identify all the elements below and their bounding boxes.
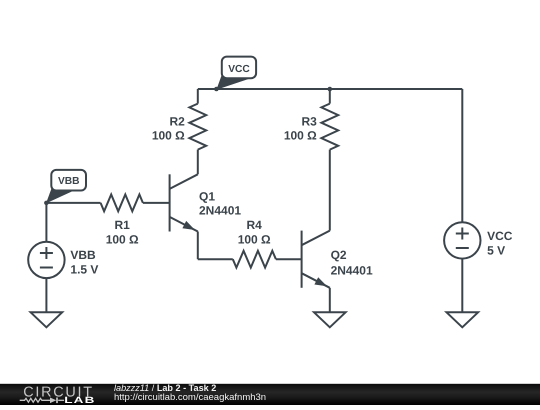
net flag VCC [216,57,256,90]
ground VCC [447,312,479,327]
svg-text:100 Ω: 100 Ω [284,128,317,142]
wire R1 to Q1 base [143,202,170,204]
transistor Q1 [170,174,198,231]
wire emitter to R4 [198,258,233,260]
svg-text:VCC: VCC [228,64,250,75]
svg-text:2N4401: 2N4401 [331,264,373,278]
svg-text:2N4401: 2N4401 [199,204,241,218]
svg-text:VCC: VCC [487,229,513,243]
footer caption [114,384,216,393]
svg-text:VBB: VBB [70,248,96,262]
wire Q1 emitter down [197,232,199,260]
logo resistor squiggle [20,398,64,402]
ground Q2 emitter [314,312,346,327]
node VBB junction [44,201,49,206]
resistor R3 [321,104,338,150]
svg-text:Q2: Q2 [331,248,347,262]
ground VBB [31,312,63,327]
node R3 rail junction [328,87,333,92]
logo diode [50,397,56,403]
wire Q2 collector up to R3 [329,150,331,231]
svg-text:100 Ω: 100 Ω [238,233,271,247]
wire R3 top lead [329,89,331,104]
svg-text:Q1: Q1 [199,189,215,203]
wire R4 to Q2 base [276,258,302,260]
wire R2 top lead [197,89,199,104]
svg-text:100 Ω: 100 Ω [106,233,139,247]
svg-text:5 V: 5 V [487,244,505,258]
wire R2 bottom to Q1 collector [197,150,199,175]
svg-text:R2: R2 [169,115,185,129]
wire Q2 emitter to ground [329,288,331,313]
resistor R2 [189,104,206,150]
footer bar [0,383,540,405]
svg-text:1.5 V: 1.5 V [70,262,98,276]
wire right branch down [461,89,463,222]
svg-text:VBB: VBB [58,176,80,187]
wire VBB node down to source [45,203,47,242]
svg-text:R4: R4 [247,218,263,232]
net flag VBB [46,170,86,204]
transistor Q2 [302,231,330,288]
voltage source VCC [444,222,480,258]
CircuitLab logo [14,383,114,410]
wire VBB node to R1 [46,202,100,204]
wire top VCC rail [198,88,463,90]
node VCC flag junction [214,87,219,92]
svg-text:100 Ω: 100 Ω [152,128,185,142]
svg-text:R3: R3 [301,115,317,129]
resistor R4 [233,251,276,268]
voltage source VBB [28,242,64,278]
svg-text:LAB: LAB [64,395,95,405]
resistor R1 [101,195,143,212]
svg-text:R1: R1 [115,218,131,232]
